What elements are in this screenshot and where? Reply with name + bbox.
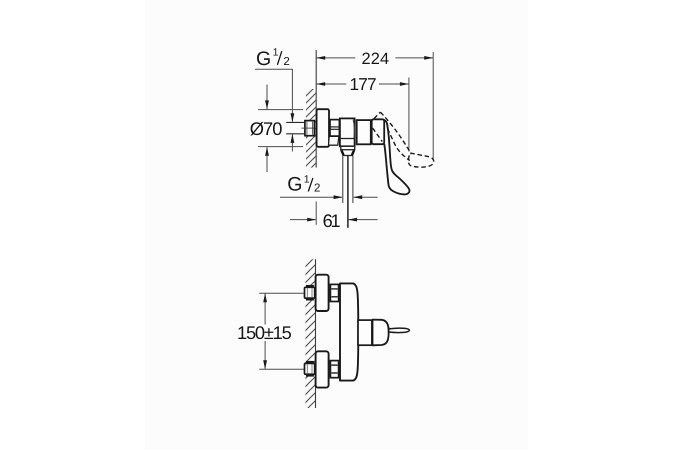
neck (front view): [358, 320, 372, 345]
svg-text:G: G: [256, 48, 271, 70]
outlet step: [341, 146, 355, 150]
Ø70 extension line bottom: [258, 146, 303, 148]
svg-text:2: 2: [283, 56, 289, 68]
dashed grip end: [408, 153, 433, 167]
upper wall nut back plate: [306, 285, 314, 287]
dim 61 right line: [348, 219, 377, 221]
ext line 224: [432, 52, 434, 160]
solid lever: [383, 119, 410, 194]
G1/2 lower arrow line: [291, 134, 293, 151]
fraction slash of G1/2 top: [277, 51, 281, 65]
label G1/2 bottom: [287, 174, 320, 196]
wall line (front view): [315, 259, 317, 408]
upper s-union nut (front): [330, 284, 338, 301]
ext line 177: [408, 78, 410, 152]
svg-text:Ø70: Ø70: [250, 118, 283, 139]
lower wall nut back plate: [306, 361, 314, 363]
dim 150 lower arrow: [264, 341, 266, 369]
svg-text:1: 1: [273, 47, 279, 59]
s-union nut skirt: [329, 136, 339, 145]
fraction slash of G1/2 bottom: [308, 178, 313, 192]
wall hatch (front view): [302, 254, 318, 414]
G1/2 leader line right: [354, 196, 378, 198]
outlet pipe walls: [342, 156, 344, 203]
ext line 150 top: [259, 292, 304, 294]
dashed lever upper edge: [380, 112, 411, 154]
dim 177 line: [316, 83, 346, 85]
body right inner curve: [353, 120, 354, 138]
outlet centre pipe: [347, 156, 349, 228]
escutcheon (top view): [317, 109, 329, 147]
chamfer shade right: [352, 151, 354, 156]
outlet chamfer: [341, 150, 355, 156]
ext line 61: [315, 202, 317, 225]
handle ring: [357, 120, 371, 144]
blade base tick: [388, 327, 390, 334]
dim 224 line: [316, 57, 355, 59]
upper escutcheon (front): [316, 275, 329, 311]
Ø70 extension line top: [258, 109, 303, 111]
inlet pipe (G1/2 tail): [286, 123, 305, 134]
label G1/2 top: [256, 47, 290, 71]
lower escutcheon (front): [316, 351, 329, 387]
arrow to outlet pipe right: [353, 195, 362, 199]
lower wall nut: [305, 363, 315, 374]
dashed lever lower edge: [388, 129, 410, 161]
wall line (top view): [315, 50, 317, 168]
s-union nut: [330, 120, 339, 137]
body step line: [340, 138, 355, 140]
svg-text:224: 224: [362, 50, 390, 68]
dashed lever apex: [374, 112, 380, 119]
dim 150 upper arrow: [264, 294, 266, 325]
ext line 150 bottom: [259, 368, 304, 370]
wall nut: [305, 121, 315, 136]
dim 177 arrows: [316, 82, 325, 86]
svg-text:G: G: [287, 174, 302, 196]
G1/2 leader line left: [280, 196, 342, 198]
body (top view): [340, 118, 355, 146]
leader G1/2 top: [255, 69, 292, 121]
wall hatch (top view): [303, 83, 319, 183]
svg-text:1: 1: [304, 174, 310, 186]
dim 61 left line: [290, 219, 316, 221]
arrow to pipe bottom: [291, 134, 295, 143]
arrow to pipe top: [291, 113, 295, 122]
svg-text:177: 177: [350, 74, 377, 94]
pipe centreline dash: [302, 127, 315, 129]
upper wall nut: [305, 287, 315, 298]
Ø70 upper dimension arrow: [266, 85, 268, 110]
svg-text:61: 61: [323, 211, 341, 231]
Ø70 lower dimension arrow: [266, 147, 268, 172]
chamfer shade left: [342, 151, 344, 156]
lower s-union nut (front): [330, 361, 338, 378]
dim 224 arrows: [316, 56, 325, 60]
body (front view): [340, 283, 358, 380]
handle cap: [372, 119, 385, 144]
svg-text:150±15: 150±15: [237, 322, 292, 343]
lever blade (end view): [389, 328, 410, 332]
photo area tint: [145, 0, 528, 450]
svg-text:2: 2: [314, 183, 320, 195]
handle cap (end view): [373, 320, 389, 346]
arrow to outlet pipe left: [334, 195, 343, 199]
dashed line across cap: [373, 128, 383, 142]
